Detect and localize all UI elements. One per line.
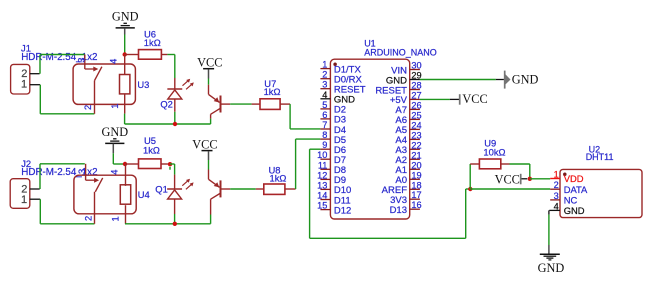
svg-text:4: 4: [109, 59, 119, 64]
transistor PNP channel 1: [209, 85, 231, 115]
connector J1 HDR-M-2.54_1x2: [11, 42, 98, 94]
U1 pin 20 A1: [395, 160, 421, 176]
resistor U7 1kΩ: [252, 78, 291, 110]
U1 pin 18 AREF: [382, 180, 422, 196]
svg-text:VCC: VCC: [495, 173, 520, 187]
svg-text:VDD: VDD: [564, 173, 584, 184]
ground GND (channel 2): [101, 125, 128, 154]
wire J2 pin2 to relay U4 pin3: [40, 164, 85, 189]
relay U4 pin 3: [77, 164, 87, 180]
U1 pin 17 3V3: [390, 190, 422, 206]
svg-text:6: 6: [322, 110, 327, 120]
U2 pin 1 VDD: [550, 170, 584, 185]
svg-text:DHT11: DHT11: [586, 152, 614, 162]
svg-text:25: 25: [411, 110, 421, 120]
U1 pin 23 A4: [395, 130, 421, 146]
U1 pin 9 D6: [320, 140, 346, 156]
node rail2 junction: [173, 222, 177, 226]
svg-text:2: 2: [322, 70, 327, 80]
svg-text:10kΩ: 10kΩ: [483, 147, 505, 158]
relay U4 pin 4: [109, 164, 125, 186]
svg-text:1: 1: [554, 170, 559, 180]
U1 pin 10 D7: [317, 150, 346, 166]
ground flag GND (right of U1): [505, 71, 539, 89]
relay U4: [74, 175, 150, 214]
resistor U6 1kΩ: [125, 28, 168, 59]
svg-text:1: 1: [21, 194, 27, 206]
U2 pin 4 GND: [549, 201, 584, 216]
wire VCC junction to DHT11 VDD: [530, 178, 550, 180]
U1 pin 24 A5: [395, 120, 421, 136]
wire J1 pin1 to relay U3 pin2: [40, 85, 94, 114]
svg-text:28: 28: [411, 81, 421, 91]
svg-text:GND: GND: [112, 9, 139, 23]
wire LED Q1 bottom to rail 2: [174, 214, 176, 224]
wire relay U3 pin1 to rail 1: [124, 114, 126, 124]
node rail1 junction: [173, 122, 177, 126]
relay U4 pin 1: [111, 205, 126, 224]
U1 pin 27 +5V: [390, 90, 422, 106]
svg-text:24: 24: [411, 120, 421, 130]
LED Q1: [155, 175, 193, 214]
svg-text:VCC: VCC: [192, 137, 217, 151]
svg-text:4: 4: [554, 201, 559, 211]
U1 pin 21 A2: [395, 150, 421, 166]
wire DHT11 GND to ground: [548, 210, 550, 254]
svg-text:16: 16: [411, 200, 421, 210]
U1 pin 19 A0: [395, 170, 421, 186]
svg-text:13: 13: [317, 180, 327, 190]
svg-text:2: 2: [83, 216, 93, 221]
svg-text:1: 1: [322, 60, 327, 70]
svg-text:11: 11: [318, 160, 328, 170]
svg-text:1kΩ: 1kΩ: [264, 86, 281, 97]
svg-text:VCC: VCC: [197, 56, 222, 70]
relay U3: [73, 64, 149, 104]
svg-text:3: 3: [322, 80, 327, 90]
U1 pin 5 D2: [320, 100, 346, 116]
U1 pin 22 A3: [395, 140, 421, 156]
wire GND2 to junction: [113, 153, 125, 164]
connector J2 HDR-M-2.54_1x2: [10, 158, 97, 209]
relay U3 pin 1: [110, 94, 125, 114]
U1 pin 14 D11: [317, 191, 350, 207]
node junction GND2/U5/relay-coil: [123, 162, 127, 166]
U1 pin 7 D4: [320, 120, 346, 136]
svg-text:1kΩ: 1kΩ: [144, 37, 161, 48]
wire U1 GND pin29 to GND flag: [420, 79, 504, 81]
svg-text:1: 1: [21, 78, 27, 90]
svg-text:1: 1: [111, 216, 121, 221]
U1 pin 11 D8: [318, 160, 346, 176]
resistor U9 10kΩ: [470, 137, 509, 168]
wire U6 to LED Q2 top: [167, 55, 174, 79]
relay U3 pin 4: [109, 55, 125, 75]
svg-text:GND: GND: [564, 205, 585, 216]
svg-text:1: 1: [110, 104, 120, 109]
IC U2 DHT11 body: [560, 145, 642, 218]
svg-text:GND: GND: [538, 261, 565, 275]
svg-text:D12: D12: [334, 205, 351, 216]
svg-text:U4: U4: [138, 189, 150, 200]
wire transistor2 base to U8: [230, 188, 256, 190]
svg-text:VCC: VCC: [462, 92, 487, 106]
power flag VCC (at DHT11): [495, 173, 528, 187]
wire DATA junction to DHT11 DATA: [470, 188, 550, 190]
U1 pin 6 D3: [320, 110, 346, 126]
svg-text:Q1: Q1: [155, 184, 168, 195]
svg-text:DATA: DATA: [564, 184, 588, 195]
svg-text:17: 17: [411, 190, 421, 200]
svg-text:26: 26: [411, 100, 421, 110]
rail channel 2: [125, 223, 211, 225]
relay U3 pin 3: [76, 55, 86, 70]
wire VCC2 to transistor 2 emitter: [208, 160, 210, 170]
ground GND (bottom right): [538, 254, 565, 275]
U1 pin 8 D5: [320, 130, 346, 146]
wire transistor2 collector to rail 2: [210, 199, 212, 224]
svg-text:1kΩ: 1kΩ: [270, 172, 287, 183]
U1 pin 25 A6: [395, 110, 421, 126]
svg-text:22: 22: [411, 140, 421, 150]
svg-text:D13: D13: [390, 205, 407, 216]
svg-text:30: 30: [411, 61, 421, 71]
wire GND1 down to junction: [124, 35, 126, 55]
svg-text:10: 10: [317, 150, 327, 160]
wire J2 pin1 to relay U4 pin2: [40, 199, 94, 224]
svg-text:7: 7: [322, 120, 327, 130]
U1 pin 28 RESET: [375, 81, 421, 97]
svg-text:20: 20: [411, 160, 421, 170]
U2 pin 2 DATA: [550, 180, 588, 195]
relay U4 pin 2: [83, 192, 94, 224]
wire U1 +5V pin27 to VCC flag: [420, 98, 459, 100]
wire U5 junction to LED Q1: [170, 164, 175, 175]
power flag VCC (channel 1): [197, 56, 222, 79]
U1 pin 26 A7: [395, 100, 421, 116]
rail channel 1: [125, 123, 211, 125]
svg-text:3: 3: [77, 169, 87, 174]
svg-text:21: 21: [411, 150, 421, 160]
wire transistor1 collector to rail 1: [210, 114, 212, 124]
resistor U5 1kΩ: [125, 135, 167, 169]
node junction VCC/VDD: [528, 177, 532, 181]
svg-text:3: 3: [554, 191, 559, 201]
U1 pin 2 D0/RX: [320, 70, 362, 86]
svg-text:GND: GND: [512, 72, 539, 86]
U1 pin 13 D10: [317, 180, 351, 196]
svg-text:ARDUINO_NANO: ARDUINO_NANO: [364, 48, 437, 58]
svg-text:1kΩ: 1kΩ: [143, 144, 160, 155]
U1 pin 30 VIN: [391, 61, 421, 77]
relay U3 pin 2: [83, 81, 94, 114]
svg-text:14: 14: [317, 191, 327, 201]
wire VCC1 to transistor emitter: [208, 79, 210, 85]
svg-text:15: 15: [317, 201, 327, 211]
ground GND (channel 1 top): [112, 9, 139, 34]
U2 pin 3 NC: [550, 191, 577, 206]
U1 pin 1 D1/TX: [320, 60, 361, 76]
svg-text:9: 9: [322, 140, 327, 150]
node junction U5-right / LED Q1: [167, 162, 172, 170]
transistor PNP channel 2: [209, 170, 231, 200]
power flag VCC (right of U1): [460, 92, 488, 106]
wire J1 pin2 to relay U3 pin3: [40, 55, 85, 74]
svg-text:8: 8: [322, 130, 327, 140]
wire U1 D6 to DHT11 DATA: [310, 149, 471, 238]
node junction DATA/U9: [468, 187, 472, 191]
wire U8 to U1 pin 8 D5: [296, 139, 321, 189]
svg-text:2: 2: [554, 180, 559, 190]
wire LED Q2 bottom to rail 1: [174, 112, 176, 124]
svg-text:4: 4: [109, 170, 119, 175]
svg-text:23: 23: [411, 130, 421, 140]
U1 pin 12 D9: [317, 170, 346, 186]
IC U1 ARDUINO_NANO body: [330, 38, 436, 219]
svg-text:Q2: Q2: [160, 99, 173, 110]
svg-text:NC: NC: [564, 195, 578, 206]
svg-text:GND: GND: [101, 125, 128, 139]
power flag VCC (channel 2): [192, 137, 217, 160]
wire U9 left leg: [469, 164, 471, 189]
node junction GND1/U6/relay-coil: [123, 52, 127, 56]
svg-text:5: 5: [322, 100, 327, 110]
LED Q2: [160, 78, 193, 112]
resistor U8 1kΩ: [256, 165, 296, 195]
svg-text:U3: U3: [137, 79, 149, 90]
U1 pin 4 GND: [320, 90, 355, 106]
U1 pin 16 D13: [390, 200, 422, 216]
wire U7 to U1 pin 7 D4: [290, 104, 320, 129]
svg-text:2: 2: [83, 105, 93, 110]
U1 pin 29 GND: [386, 71, 422, 87]
svg-text:18: 18: [411, 180, 421, 190]
U1 pin 3 RESET: [320, 80, 365, 96]
U1 pin 15 D12: [317, 201, 351, 217]
wire transistor1 base to U7: [230, 103, 251, 105]
svg-text:19: 19: [411, 170, 421, 180]
svg-text:4: 4: [322, 90, 327, 100]
wire U9 right leg to VCC junction: [510, 164, 530, 179]
svg-text:12: 12: [317, 170, 327, 180]
svg-text:3: 3: [76, 58, 86, 63]
